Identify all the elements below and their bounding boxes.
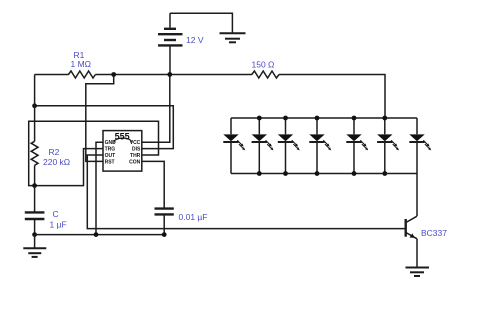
svg-text:555: 555 [115,132,130,142]
ground GND1 top right [220,33,246,42]
wire THR pin6 [29,121,159,185]
junction dot bottom rail x=384.8 [382,171,387,176]
label 150 Ω [252,60,275,70]
wire VCC pin8 [142,75,170,143]
wire TRG pin2 [35,149,103,186]
battery V1 12V [158,13,183,74]
label C 1 µF [50,209,67,230]
IC U1 555 timer body [103,131,142,172]
wire OUT pin3 [87,155,405,229]
svg-text:1 MΩ: 1 MΩ [71,59,92,69]
ground GND3 below transistor [406,268,430,277]
wire DIS pin7 [35,106,174,149]
svg-text:220 kΩ: 220 kΩ [43,157,70,167]
node TRG/THR junction dot [32,183,37,188]
svg-text:RST: RST [105,159,115,165]
LED D6 [377,118,399,174]
LED D3 [278,118,300,174]
resistor 150Ω [252,71,279,78]
LED D5 [346,118,368,174]
svg-text:CON: CON [129,159,141,165]
wire RST pin4 [86,75,114,162]
resistor R2 220k [31,141,38,165]
junction dot bottom rail x=317 [315,171,320,176]
wire GND pin1 [96,142,103,234]
junction dot bottom rail x=285.5 [283,171,288,176]
label R2 220 kΩ [43,147,70,167]
node C bottom dot [32,232,37,237]
svg-text:OUT: OUT [105,153,116,159]
wire CON pin5 [142,161,164,208]
label BC337 [421,228,447,238]
svg-text:12 V: 12 V [186,35,204,45]
LED D2 [252,118,274,174]
node DIS junction dot [32,103,37,108]
svg-text:0.01 µF: 0.01 µF [179,212,208,222]
wire R1 to battery node [95,74,252,76]
junction dot bottom rail x=259.3 [257,171,262,176]
wire 150Ω to LED rail [279,75,385,119]
LED anode top rail [231,117,417,119]
wire bottom rail to collector [416,174,418,217]
junction dot bottom rail x=354 [352,171,357,176]
wire R1 left to R2 [34,75,36,142]
svg-text:GND: GND [105,140,117,146]
svg-text:1 µF: 1 µF [50,220,67,230]
node C2 bottom dot [162,232,167,237]
svg-text:C: C [53,209,59,219]
svg-text:BC337: BC337 [421,228,447,238]
junction dot top rail x=384.8 [382,116,387,121]
wire R2 bottom lead [34,165,36,185]
resistor R1 [68,71,95,78]
node VCC/battery junction dot [167,72,172,77]
junction dot top rail x=259.3 [257,116,262,121]
capacitor C 1uF [25,186,45,235]
wire battery top to ground [170,13,232,33]
LED cathode bottom rail [231,173,417,175]
label R1 1 MΩ [71,50,92,69]
junction dot top rail x=285.5 [283,116,288,121]
svg-text:THR: THR [130,153,141,159]
transistor Q1 BC337 [406,216,417,267]
junction dot top rail x=354 [352,116,357,121]
svg-text:150 Ω: 150 Ω [252,60,275,70]
label 0.01 µF [179,212,208,222]
LED D4 [309,118,331,174]
svg-text:VCC: VCC [130,140,141,146]
svg-text:DIS: DIS [132,147,141,153]
pin labels [105,140,141,165]
svg-text:TRG: TRG [105,147,116,153]
LED D1 [223,118,245,174]
ground GND2 below C [23,235,46,257]
junction dot top rail x=317 [315,116,320,121]
wire +12V rail [35,74,69,76]
555 notch [114,138,132,143]
ground rail wire [35,234,165,236]
node RST junction dot [111,72,116,77]
capacitor C2 0.01uF [155,209,174,235]
node GND pin rail dot [94,232,99,237]
label 555 [115,132,130,142]
svg-text:R2: R2 [49,147,60,157]
LED D7 [409,118,431,174]
